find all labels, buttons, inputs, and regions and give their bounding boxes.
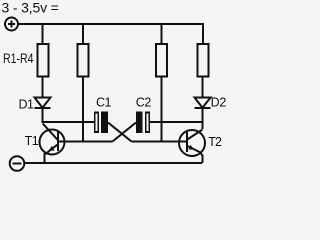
svg-text:T1: T1: [25, 134, 39, 148]
svg-text:C2: C2: [136, 95, 152, 109]
svg-text:C1: C1: [96, 95, 112, 109]
svg-text:D2: D2: [211, 96, 227, 110]
svg-text:R1-R4: R1-R4: [3, 50, 34, 66]
svg-text:D1: D1: [19, 97, 35, 111]
svg-text:T2: T2: [208, 135, 222, 149]
svg-text:3 - 3,5v =: 3 - 3,5v =: [2, 0, 59, 15]
